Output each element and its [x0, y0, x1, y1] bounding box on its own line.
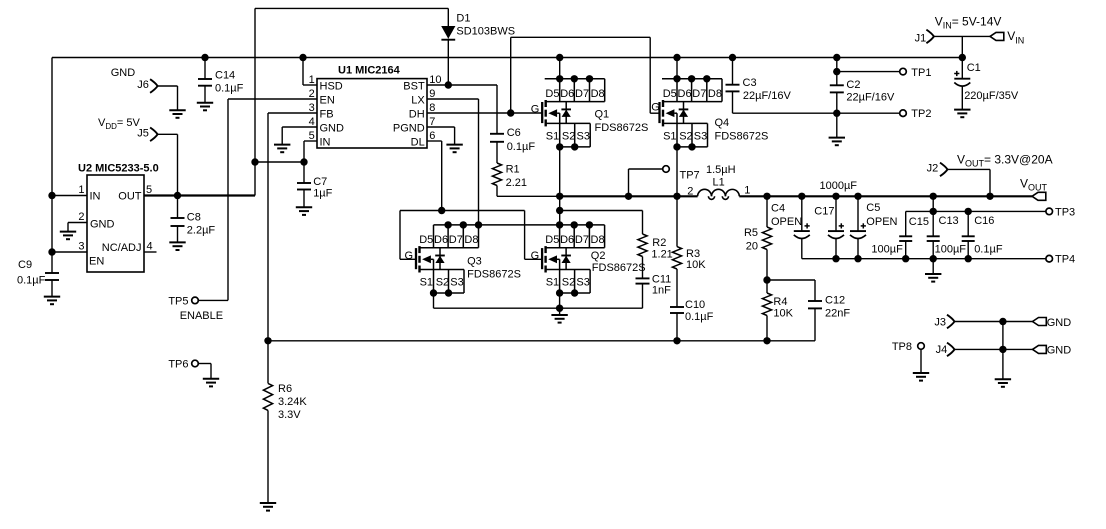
svg-text:FB: FB: [320, 109, 334, 121]
ground U1 pin4: [274, 145, 290, 153]
U2 pin 4 stub: [144, 251, 157, 253]
svg-text:3: 3: [78, 241, 84, 253]
svg-text:D5: D5: [545, 234, 559, 246]
node DH junction: [507, 109, 514, 116]
Q2 source pin box S1-S3: [546, 269, 591, 271]
svg-text:J1: J1: [915, 32, 927, 44]
svg-text:NC/ADJ: NC/ADJ: [102, 242, 142, 254]
svg-text:4: 4: [147, 241, 153, 253]
transistor Q2 FDS8672S (gate bar): [541, 248, 543, 269]
svg-text:EN: EN: [320, 95, 335, 107]
svg-text:BST: BST: [403, 81, 425, 93]
svg-text:FDS8672S: FDS8672S: [595, 122, 649, 134]
svg-text:TP1: TP1: [911, 67, 931, 79]
svg-text:S2: S2: [436, 277, 449, 289]
svg-text:S1: S1: [546, 277, 559, 289]
svg-text:Q3: Q3: [467, 255, 482, 267]
svg-text:5: 5: [309, 130, 315, 142]
svg-text:TP3: TP3: [1055, 207, 1075, 219]
svg-text:IN: IN: [90, 191, 101, 203]
svg-text:22nF: 22nF: [825, 307, 850, 319]
svg-text:1: 1: [744, 185, 750, 197]
resistor R3: [676, 196, 678, 246]
wire Q2 source to ground bus: [559, 293, 561, 308]
node R5 R4 C12 junction: [763, 276, 770, 283]
node TP7 junction: [625, 193, 632, 200]
capacitor C17 1000uF: [832, 193, 839, 200]
wire TP8 to ground: [920, 349, 922, 372]
wire U1 pin8 DH to Q1 gate: [427, 112, 542, 114]
svg-text:L1: L1: [713, 176, 725, 188]
svg-text:OPEN: OPEN: [866, 216, 897, 228]
node HSD junction on VIN rail: [299, 54, 306, 61]
wire J3 J4 to ground: [1002, 322, 1004, 379]
capacitor C12: [767, 279, 815, 281]
svg-text:TP8: TP8: [892, 341, 912, 353]
capacitor C14: [201, 54, 208, 61]
svg-text:D7: D7: [449, 234, 463, 246]
wire VIN rail: [52, 57, 962, 59]
svg-text:S1: S1: [420, 277, 433, 289]
capacitor C11: [636, 277, 650, 279]
ground C2: [829, 138, 845, 146]
svg-text:D8: D8: [591, 234, 605, 246]
node U2 EN junction: [48, 248, 55, 255]
U2 pin 3 wire: [52, 251, 87, 253]
node R2 junction: [556, 207, 563, 214]
wire TP3 line: [906, 210, 1046, 212]
svg-text:S1: S1: [546, 130, 559, 142]
wire Q3 source to ground bus: [433, 293, 435, 308]
svg-text:5: 5: [146, 184, 152, 196]
svg-text:R4: R4: [773, 296, 787, 308]
Q4 channel dashes: [662, 100, 664, 126]
svg-text:G: G: [651, 102, 660, 114]
svg-text:D8: D8: [708, 88, 722, 100]
wire source ground bus: [434, 307, 643, 309]
test point TP7: [628, 169, 630, 196]
test point TP8: [918, 343, 925, 350]
ground U2 pin2: [60, 232, 76, 240]
wire drain bus Q3-Q2 LX: [434, 224, 605, 226]
op-amp U1 MIC2164 body: [317, 79, 427, 148]
Q3 body diode: [439, 248, 441, 270]
svg-text:0.1µF: 0.1µF: [974, 243, 1003, 255]
svg-text:1: 1: [78, 184, 84, 196]
svg-text:LX: LX: [411, 95, 425, 107]
diode D1 SD103BWS: [447, 8, 449, 26]
wire 5V vertical x=255: [254, 8, 256, 195]
svg-text:IN: IN: [320, 137, 331, 149]
terminal VIN tag: [990, 32, 1004, 40]
Q3 channel dashes: [418, 246, 420, 272]
Q3 source arrow: [422, 255, 431, 263]
svg-text:3: 3: [309, 102, 315, 114]
svg-text:10: 10: [429, 74, 441, 86]
Q4 source pin box S1-S3: [663, 122, 708, 124]
ground PGND: [446, 145, 462, 153]
svg-text:3.24K: 3.24K: [278, 396, 307, 408]
svg-text:S3: S3: [577, 130, 590, 142]
U2 pin 2 wire: [68, 222, 87, 224]
svg-text:2.21: 2.21: [506, 177, 527, 189]
wire Q1 drain feed from VIN: [556, 54, 563, 61]
svg-text:7: 7: [429, 116, 435, 128]
svg-text:Q4: Q4: [715, 117, 730, 129]
svg-text:D6: D6: [560, 234, 574, 246]
wire 5V to IN pin: [255, 161, 304, 163]
wire output bottom bus: [802, 258, 1046, 260]
svg-text:FDS8672S: FDS8672S: [592, 262, 646, 274]
svg-text:6: 6: [429, 130, 435, 142]
node J4 junction: [999, 346, 1006, 353]
wire U1 pin3 FB: [268, 112, 317, 114]
capacitor C1 220uF: [954, 78, 970, 80]
svg-text:R5: R5: [744, 227, 758, 239]
svg-text:TP6: TP6: [168, 358, 188, 370]
svg-text:10K: 10K: [686, 259, 706, 271]
node BST junction: [445, 81, 452, 88]
svg-text:GND: GND: [1047, 317, 1072, 329]
svg-text:C2: C2: [846, 79, 860, 91]
svg-text:D6: D6: [560, 88, 574, 100]
transistor Q4 FDS8672S (gate bar): [658, 102, 660, 123]
wire left rail down to U2: [51, 58, 53, 274]
U2 pin 1 wire: [52, 195, 87, 197]
ground TP8: [913, 373, 929, 381]
wire DL gate line: [400, 210, 525, 212]
svg-text:2: 2: [687, 185, 693, 197]
ground C8: [169, 242, 185, 250]
svg-text:C7: C7: [313, 176, 327, 188]
wire U1 pin9 LX: [427, 98, 479, 100]
svg-text:J4: J4: [936, 344, 948, 356]
op-amp U2 MIC5233-5.0 body: [87, 175, 144, 272]
svg-text:1: 1: [309, 74, 315, 86]
wire J2 to VOUT: [948, 168, 991, 170]
Q1 source pin box S1-S3: [546, 122, 591, 124]
svg-text:2: 2: [309, 88, 315, 100]
svg-text:R3: R3: [686, 248, 700, 260]
node TP1 junction: [833, 68, 840, 75]
wire VIN drop to rail: [961, 36, 963, 78]
test point TP6: [192, 360, 199, 367]
svg-text:S3: S3: [576, 277, 589, 289]
svg-text:3.3V: 3.3V: [278, 409, 301, 421]
svg-text:Q2: Q2: [591, 250, 606, 262]
test point TP4: [1046, 255, 1053, 262]
svg-text:S2: S2: [679, 130, 692, 142]
capacitor C8: [177, 196, 179, 219]
wire Q4 drain feed from VIN: [673, 54, 680, 61]
svg-text:1µF: 1µF: [313, 188, 332, 200]
svg-text:S3: S3: [450, 277, 463, 289]
wire J5 to 5V rail: [158, 133, 178, 135]
svg-text:TP2: TP2: [911, 108, 931, 120]
test point TP1: [837, 71, 900, 73]
svg-text:R6: R6: [278, 383, 292, 395]
svg-text:TP5: TP5: [168, 295, 188, 307]
ground Q2/Q3 source: [559, 308, 561, 314]
svg-text:1.5µH: 1.5µH: [706, 164, 736, 176]
wire Q4 source to LX: [676, 147, 678, 196]
capacitor C9: [45, 272, 59, 274]
svg-text:D7: D7: [575, 234, 589, 246]
svg-text:FDS8672S: FDS8672S: [467, 269, 521, 281]
capacitor C16: [965, 208, 972, 215]
wire R2 top: [560, 210, 643, 212]
test point TP3: [1046, 208, 1053, 215]
ground C14: [197, 103, 213, 111]
svg-text:0.1µF: 0.1µF: [685, 311, 714, 323]
wire U1 pin6 DL: [427, 140, 442, 142]
svg-text:C15: C15: [909, 216, 929, 228]
resistor R1: [496, 142, 498, 163]
resistor R5: [763, 193, 770, 200]
node Q4 source LX junction: [673, 193, 680, 200]
svg-text:D5: D5: [545, 88, 559, 100]
Q3 drain pin box D5-D8: [420, 247, 479, 249]
svg-text:SD103BWS: SD103BWS: [456, 25, 515, 37]
wire DH to Q4 gate: [510, 37, 512, 113]
capacitor C13: [930, 193, 937, 200]
svg-text:D1: D1: [456, 13, 470, 25]
svg-text:J2: J2: [927, 163, 939, 175]
svg-text:D5: D5: [663, 88, 677, 100]
svg-text:J3: J3: [934, 317, 946, 329]
resistor R4: [766, 280, 768, 293]
capacitor C15: [905, 211, 907, 236]
Q2 body diode: [565, 248, 567, 270]
terminal GND tag J4: [1033, 345, 1047, 353]
capacitor C4 OPEN: [798, 193, 805, 200]
node ground bus junction: [556, 305, 563, 312]
svg-text:C10: C10: [685, 299, 705, 311]
wire Q1 source to LX: [559, 147, 561, 225]
svg-text:G: G: [531, 250, 540, 262]
svg-text:R1: R1: [506, 164, 520, 176]
svg-text:C8: C8: [187, 212, 201, 224]
wire J6 to ground: [158, 85, 178, 87]
test point TP5: [192, 297, 199, 304]
svg-text:D7: D7: [575, 88, 589, 100]
svg-text:PGND: PGND: [393, 123, 425, 135]
wire U1 pin2 EN to TP5: [228, 98, 317, 100]
capacitor C5 OPEN: [854, 193, 861, 200]
wire LX bus: [560, 195, 698, 197]
svg-text:10K: 10K: [773, 308, 793, 320]
Q1 drain pin box D5-D8: [545, 78, 605, 80]
node J2 junction: [986, 193, 993, 200]
svg-text:C14: C14: [215, 69, 235, 81]
node U2 IN junction: [48, 192, 55, 199]
svg-text:R2: R2: [652, 237, 666, 249]
resistor R2: [642, 211, 644, 235]
svg-text:D5: D5: [419, 234, 433, 246]
wire FB bus: [268, 340, 815, 342]
svg-text:D7: D7: [692, 88, 706, 100]
Q1 channel dashes: [545, 100, 547, 126]
node Q3 drain bus dots: [444, 221, 451, 228]
svg-text:U1 MIC2164: U1 MIC2164: [338, 65, 401, 77]
svg-text:22µF/16V: 22µF/16V: [743, 90, 792, 102]
svg-text:S2: S2: [562, 130, 575, 142]
svg-text:100µF: 100µF: [871, 243, 903, 255]
svg-text:C3: C3: [743, 77, 757, 89]
wire 5V top run: [255, 7, 448, 9]
ground R6: [260, 503, 276, 511]
node C10 junction: [673, 337, 680, 344]
svg-text:G: G: [405, 250, 414, 262]
transistor Q1 FDS8672S (gate bar): [541, 102, 543, 123]
svg-text:TP7: TP7: [680, 170, 700, 182]
svg-text:U2 MIC5233-5.0: U2 MIC5233-5.0: [78, 163, 159, 175]
svg-text:GND: GND: [1047, 345, 1072, 357]
svg-text:D8: D8: [591, 88, 605, 100]
node Q2 drain bus dots: [556, 221, 563, 228]
svg-text:8: 8: [429, 102, 435, 114]
svg-text:J5: J5: [137, 128, 149, 140]
svg-text:C9: C9: [18, 259, 32, 271]
svg-text:2: 2: [78, 211, 84, 223]
svg-text:C5: C5: [866, 202, 880, 214]
svg-text:GND: GND: [111, 67, 136, 79]
svg-text:DH: DH: [409, 109, 425, 121]
svg-text:ENABLE: ENABLE: [180, 310, 223, 322]
wire J3 to GND tag: [955, 321, 1033, 323]
svg-text:J6: J6: [137, 79, 149, 91]
ground TP6: [203, 379, 219, 387]
svg-text:GND: GND: [320, 123, 345, 135]
svg-text:S2: S2: [562, 277, 575, 289]
ground output bus: [932, 259, 934, 274]
node J3 junction: [999, 318, 1006, 325]
svg-text:GND: GND: [90, 218, 115, 230]
terminal GND tag J3: [1033, 318, 1047, 326]
node C7 junction: [300, 158, 307, 165]
svg-text:C6: C6: [507, 127, 521, 139]
svg-text:1000µF: 1000µF: [820, 180, 858, 192]
Q2 source arrow: [548, 255, 557, 263]
Q3 source pin box S1-S3: [420, 269, 465, 271]
node 5V junction: [251, 158, 258, 165]
node R4 junction: [763, 337, 770, 344]
node C8 junction: [174, 192, 181, 199]
ground C1: [954, 110, 970, 118]
svg-text:G: G: [531, 104, 540, 116]
inductor L1 1.5µH: [698, 189, 712, 196]
wire J1 to VIN tag: [934, 35, 990, 37]
node C1 junction: [959, 54, 966, 61]
svg-text:1.21: 1.21: [651, 248, 672, 260]
svg-text:OPEN: OPEN: [771, 216, 802, 228]
capacitor C6: [496, 85, 498, 134]
terminal VOUT tag: [1032, 192, 1046, 200]
Q2 drain pin box D5-D8: [546, 247, 605, 249]
svg-text:4: 4: [309, 116, 315, 128]
ground J6: [169, 110, 185, 118]
ground J3 J4: [995, 379, 1011, 387]
svg-text:22µF/16V: 22µF/16V: [846, 92, 895, 104]
ground C9: [44, 297, 60, 305]
svg-text:FDS8672S: FDS8672S: [715, 131, 769, 143]
svg-text:D6: D6: [678, 88, 692, 100]
svg-text:C16: C16: [974, 215, 994, 227]
wire VOUT bus: [739, 195, 1032, 197]
wire U1 pin7 PGND: [427, 126, 455, 128]
ground C7: [296, 207, 312, 215]
svg-text:20: 20: [746, 240, 758, 252]
Q4 drain pin box D5-D8: [662, 78, 722, 80]
svg-text:100µF: 100µF: [935, 243, 967, 255]
svg-text:D8: D8: [464, 234, 478, 246]
Q1 source arrow: [548, 109, 557, 117]
node FB R6 junction: [264, 337, 271, 344]
svg-text:OUT: OUT: [118, 191, 142, 203]
svg-text:C12: C12: [825, 294, 845, 306]
svg-text:1nF: 1nF: [652, 284, 671, 296]
wire U1 pin1 HSD: [302, 58, 304, 86]
node Q1 source LX junction: [556, 193, 563, 200]
svg-text:2.2µF: 2.2µF: [187, 225, 216, 237]
svg-text:0.1µF: 0.1µF: [17, 274, 46, 286]
svg-text:C1: C1: [967, 62, 981, 74]
svg-text:C4: C4: [771, 203, 785, 215]
svg-text:0.1µF: 0.1µF: [215, 82, 244, 94]
svg-text:C17: C17: [814, 206, 834, 218]
U2 pin 5 OUT wire 5V: [144, 194, 255, 196]
svg-text:S1: S1: [663, 130, 676, 142]
svg-text:Q1: Q1: [595, 109, 610, 121]
node DL junction: [438, 207, 445, 214]
Q4 source arrow: [666, 109, 675, 117]
wire U1 pin10 BST: [427, 84, 497, 86]
wire J4 to GND tag: [955, 348, 1033, 350]
svg-text:EN: EN: [89, 255, 104, 267]
svg-text:C13: C13: [939, 215, 959, 227]
capacitor C10: [670, 306, 684, 308]
svg-text:220µF/35V: 220µF/35V: [964, 90, 1019, 102]
transistor Q3 FDS8672S (gate bar): [415, 248, 417, 269]
node TP2 junction: [833, 110, 840, 117]
test point TP2: [837, 112, 900, 114]
svg-text:DL: DL: [411, 137, 425, 149]
Q4 body diode: [683, 102, 685, 124]
capacitor C3: [729, 54, 736, 61]
svg-text:D6: D6: [434, 234, 448, 246]
capacitor C2: [833, 54, 840, 61]
Q1 body diode: [565, 102, 567, 124]
svg-text:0.1µF: 0.1µF: [507, 141, 536, 153]
resistor R6: [267, 341, 269, 384]
capacitor C7: [303, 162, 305, 183]
svg-text:9: 9: [429, 88, 435, 100]
svg-text:TP4: TP4: [1055, 254, 1075, 266]
wire U1 pin5 IN: [304, 140, 317, 142]
svg-text:S3: S3: [694, 130, 707, 142]
Q2 channel dashes: [544, 246, 546, 272]
wire U1 pin4 GND: [282, 126, 317, 128]
svg-text:HSD: HSD: [320, 81, 343, 93]
